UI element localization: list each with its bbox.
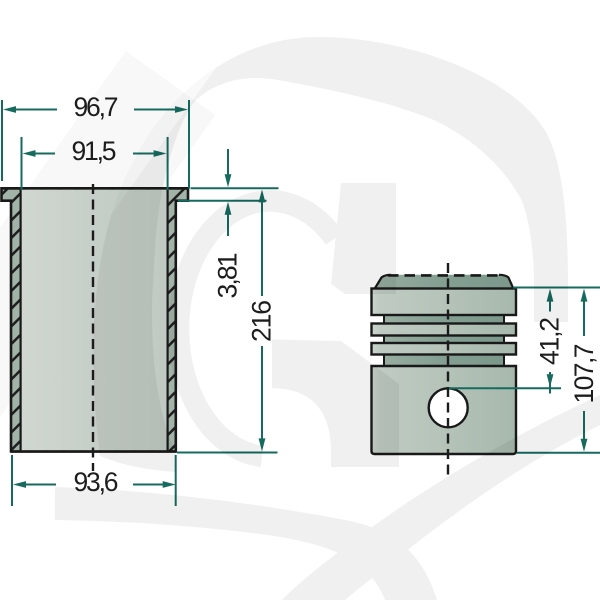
svg-text:107,7: 107,7 bbox=[569, 344, 599, 404]
svg-text:41,2: 41,2 bbox=[535, 317, 565, 365]
svg-text:96,7: 96,7 bbox=[74, 92, 119, 122]
svg-text:91,5: 91,5 bbox=[72, 136, 117, 166]
svg-text:216: 216 bbox=[247, 300, 277, 342]
svg-text:3,81: 3,81 bbox=[213, 253, 243, 299]
